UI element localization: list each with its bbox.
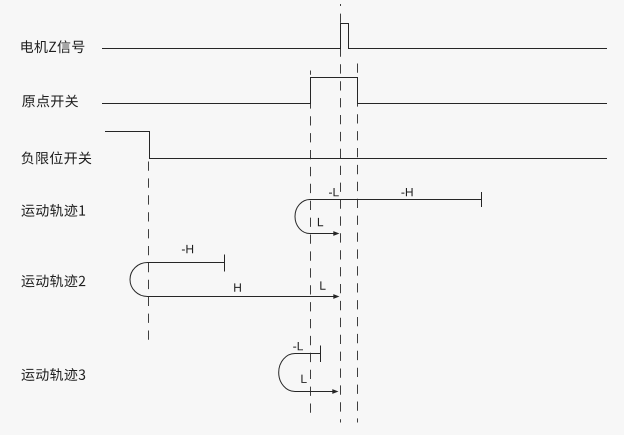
trajectory 3 path: -L leftwards, U-turn, L rightwards bbox=[279, 354, 333, 392]
speed label H (trajectory 2) bbox=[234, 283, 241, 291]
speed label L (trajectory 2) bbox=[320, 281, 325, 289]
trajectory 2 start tick at x=224.5 bbox=[224, 255, 226, 272]
dashed guide line at origin-switch rising edge x=310.5 bbox=[310, 71, 312, 416]
trajectory 3 arrowhead at Z position bbox=[332, 389, 338, 394]
speed label L (trajectory 1) bbox=[318, 218, 323, 226]
speed label L (trajectory 3) bbox=[301, 375, 306, 383]
speed label -H (trajectory 1) bbox=[401, 188, 412, 196]
speed label -H (trajectory 2) bbox=[182, 245, 193, 253]
dashed guide line at origin-switch falling edge x=357.5 bbox=[357, 64, 359, 423]
label 运动轨迹1 (motion trajectory 1) bbox=[21, 204, 85, 217]
label 电机Z信号 (motor Z signal) bbox=[21, 40, 84, 53]
signal 原点开关 waveform with high pulse bbox=[102, 78, 607, 104]
label 运动轨迹3 (motion trajectory 3) bbox=[21, 368, 85, 381]
speed label -L (trajectory 3) bbox=[293, 342, 303, 350]
trajectory 2 arrowhead at Z position bbox=[333, 294, 339, 299]
trajectory 1 path: -H leftwards, U-turn, L rightwards bbox=[295, 200, 481, 234]
label 原点开关 (origin switch) bbox=[22, 94, 78, 107]
trajectory 3 start tick at x=320.5 bbox=[320, 346, 322, 363]
signal 电机Z信号 waveform with Z pulse bbox=[102, 24, 607, 49]
trajectory 1 arrowhead at Z position bbox=[333, 231, 339, 236]
dashed guide line at negative-limit trigger x=148.5 bbox=[148, 162, 150, 344]
trajectory 1 start tick at x=481.5 bbox=[481, 192, 483, 207]
dashed guide line at Z-pulse x=340.5 bbox=[340, 4, 342, 423]
signal 负限位开关 waveform with falling step bbox=[105, 132, 607, 159]
trajectory 2 path: -H leftwards, U-turn, H/L rightwards bbox=[130, 263, 334, 297]
label 运动轨迹2 (motion trajectory 2) bbox=[21, 274, 85, 287]
speed label -L (trajectory 1) bbox=[329, 188, 339, 196]
label 负限位开关 (negative limit switch) bbox=[22, 151, 92, 164]
